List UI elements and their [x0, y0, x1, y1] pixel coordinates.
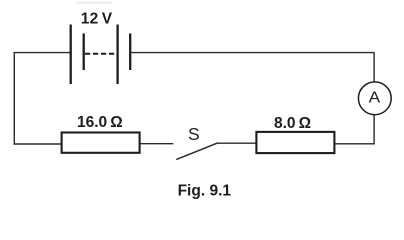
resistor R2 8.0 ohm: [256, 132, 334, 153]
ammeter A1: [358, 82, 391, 115]
switch S blade (open): [176, 143, 217, 159]
wire R1-to-switch: [140, 143, 174, 145]
svg-text:16.0 Ω: 16.0 Ω: [77, 114, 123, 131]
svg-text:S: S: [188, 124, 200, 144]
wire right vertical upper: [373, 52, 375, 82]
wire left vertical: [13, 52, 15, 145]
resistor R1 16.0 ohm: [62, 133, 140, 153]
battery cell 1 long plate: [70, 25, 72, 85]
battery B1 (two cells, dashed link): [71, 25, 131, 85]
wire switch-to-R2: [216, 142, 256, 144]
svg-text:8.0 Ω: 8.0 Ω: [274, 115, 311, 132]
svg-text:12 V: 12 V: [81, 10, 113, 27]
battery cell 2 short plate: [129, 33, 131, 70]
wire bottom-left: [14, 143, 62, 145]
wire top-right: [130, 52, 374, 54]
wire right vertical lower: [373, 115, 375, 145]
svg-text:A: A: [369, 90, 381, 107]
svg-text:Fig. 9.1: Fig. 9.1: [178, 182, 232, 199]
dashed wire between cells: [85, 53, 116, 55]
faint scan smudge top: [76, 2, 112, 5]
battery cell 2 long plate: [116, 25, 118, 85]
battery cell 1 short plate: [83, 33, 85, 70]
wire top-left: [14, 52, 71, 54]
wire bottom-right: [334, 143, 375, 145]
